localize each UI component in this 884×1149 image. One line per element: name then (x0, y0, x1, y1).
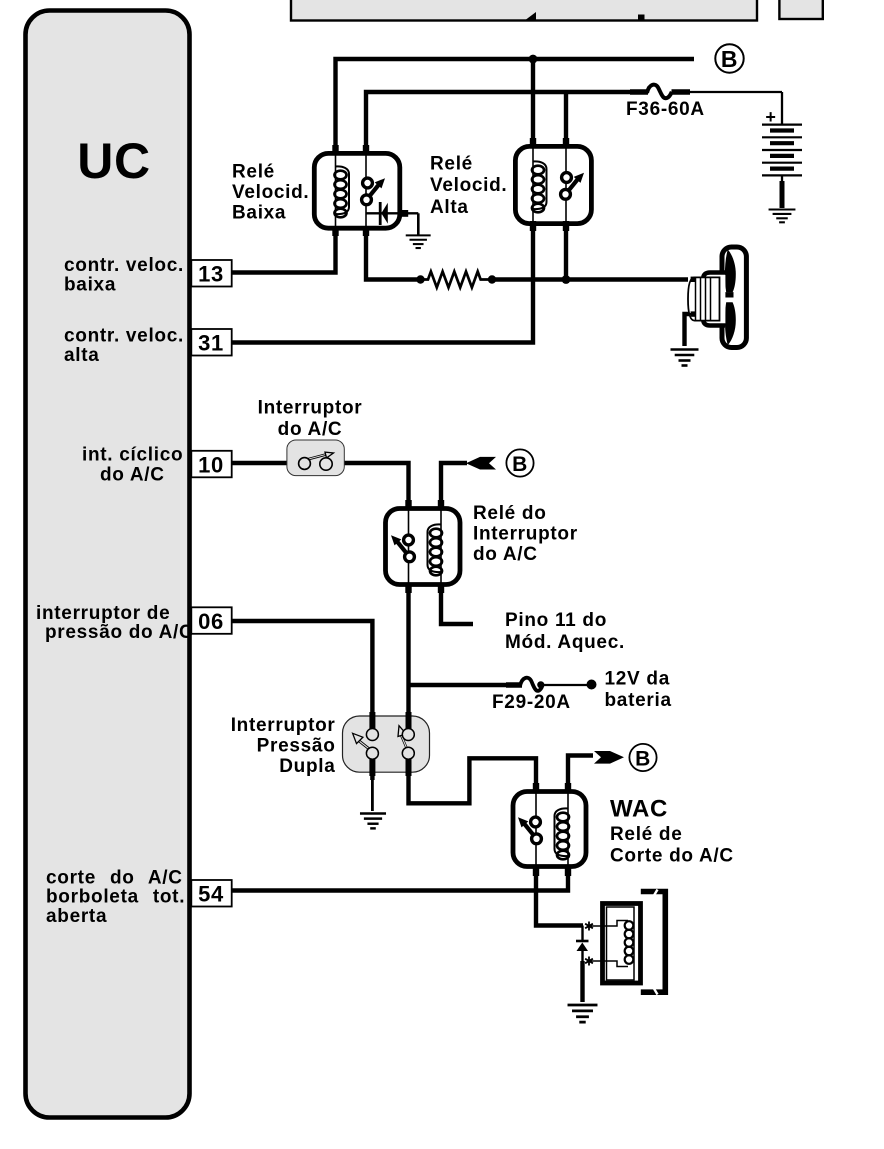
svg-text:UC: UC (77, 133, 151, 189)
svg-text:B: B (721, 46, 738, 72)
svg-text:Relé: Relé (430, 154, 473, 175)
svg-text:B: B (512, 453, 528, 476)
svg-text:B: B (635, 747, 651, 770)
svg-text:contr. veloc.: contr. veloc. (64, 255, 184, 276)
svg-text:Pressão: Pressão (257, 736, 336, 757)
svg-text:Pino 11 do: Pino 11 do (505, 610, 607, 631)
svg-text:int. cíclico: int. cíclico (82, 445, 183, 466)
svg-text:do A/C: do A/C (100, 464, 165, 485)
svg-text:Corte do A/C: Corte do A/C (610, 846, 734, 867)
svg-text:13: 13 (198, 262, 224, 287)
svg-text:Mód. Aquec.: Mód. Aquec. (505, 632, 625, 653)
svg-text:+: + (765, 107, 776, 127)
svg-text:alta: alta (64, 345, 100, 366)
svg-text:Velocid.: Velocid. (232, 182, 309, 203)
svg-text:12V da: 12V da (605, 669, 670, 690)
svg-text:10: 10 (198, 452, 224, 477)
svg-text:pressão do A/C: pressão do A/C (45, 622, 193, 643)
svg-text:Alta: Alta (430, 197, 469, 218)
svg-text:baixa: baixa (64, 275, 116, 296)
svg-text:Baixa: Baixa (232, 203, 286, 224)
svg-text:interruptor de: interruptor de (36, 603, 170, 624)
svg-text:do A/C: do A/C (278, 419, 343, 440)
svg-text:Interruptor: Interruptor (473, 524, 578, 545)
svg-text:WAC: WAC (610, 796, 668, 823)
svg-text:aberta: aberta (46, 906, 107, 927)
svg-text:Velocid.: Velocid. (430, 175, 507, 196)
svg-text:31: 31 (198, 331, 224, 356)
svg-text:F36-60A: F36-60A (626, 99, 705, 120)
svg-text:bateria: bateria (605, 690, 672, 711)
svg-text:54: 54 (198, 882, 224, 907)
svg-text:contr. veloc.: contr. veloc. (64, 326, 184, 347)
svg-text:borboleta tot.: borboleta tot. (46, 887, 185, 908)
svg-text:Interruptor: Interruptor (258, 398, 363, 419)
svg-text:06: 06 (198, 609, 224, 634)
svg-text:Relé: Relé (232, 162, 275, 183)
svg-text:Interruptor: Interruptor (231, 715, 336, 736)
svg-text:Relé de: Relé de (610, 824, 683, 845)
svg-text:Relé do: Relé do (473, 503, 547, 524)
svg-text:F29-20A: F29-20A (492, 692, 571, 713)
svg-text:do A/C: do A/C (473, 544, 538, 565)
svg-text:Dupla: Dupla (279, 756, 335, 777)
svg-text:corte do A/C: corte do A/C (46, 868, 183, 889)
